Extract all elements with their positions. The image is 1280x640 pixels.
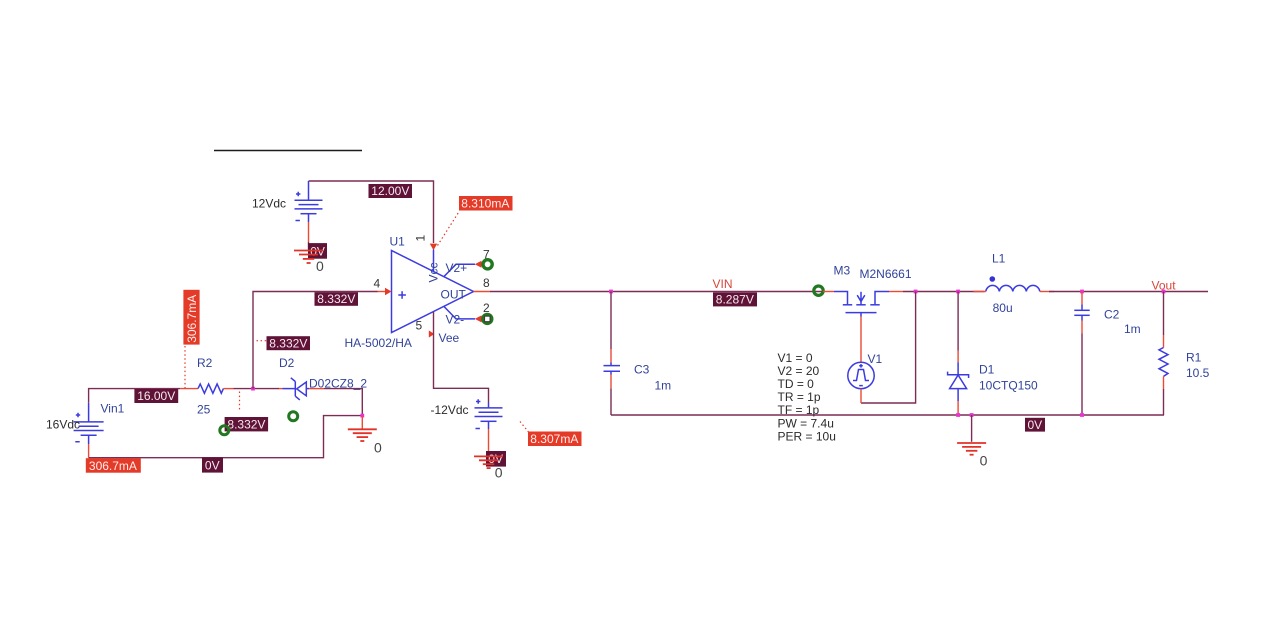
current label 306.7mA (rotated, on R2 branch): [183, 290, 199, 388]
pin 1 current arrow: [430, 244, 437, 251]
svg-text:0: 0: [495, 465, 503, 481]
voltage label 0V (12Vdc ground): [308, 243, 327, 259]
node junction at D2 ground: [360, 414, 364, 418]
svg-text:C3: C3: [634, 362, 650, 376]
svg-text:R1: R1: [1186, 350, 1202, 364]
svg-text:V1 = 0: V1 = 0: [778, 351, 813, 365]
voltage label 8.332V (above D2): [257, 336, 311, 350]
capacitor C2: [1074, 292, 1140, 416]
voltage label 0V (right rail): [1025, 418, 1045, 432]
pin 7 arrow: [475, 261, 482, 268]
svg-text:4: 4: [374, 277, 381, 291]
svg-text:25: 25: [197, 403, 211, 417]
svg-text:TF = 1p: TF = 1p: [778, 403, 820, 417]
svg-text:C2: C2: [1104, 307, 1120, 321]
node junction at D1 top: [956, 290, 960, 294]
current label 8.310mA: [438, 196, 513, 246]
svg-text:R2: R2: [197, 356, 213, 370]
svg-text:VIN: VIN: [713, 277, 733, 291]
wire Vin1 top to R2: [89, 389, 180, 403]
svg-text:-12Vdc: -12Vdc: [431, 403, 469, 417]
svg-text:8.287V: 8.287V: [716, 293, 754, 307]
voltage label 8.332V (lower, with probe ring): [220, 417, 268, 435]
wire D2 to ground corner: [324, 389, 362, 416]
voltage label 0V (-12Vdc ground): [486, 451, 506, 467]
pin 5 current arrow: [429, 330, 435, 337]
pulse source V1: [848, 352, 883, 403]
svg-text:L1: L1: [992, 252, 1006, 266]
zener diode D2: [279, 356, 324, 400]
svg-text:Vin1: Vin1: [101, 401, 125, 415]
wire R2 to D2: [234, 388, 280, 390]
op-amp U1 HA-5002/HA: [345, 235, 474, 351]
wire MOSFET gate to V1: [860, 317, 862, 363]
svg-text:8.332V: 8.332V: [227, 418, 265, 432]
voltage label 8.332V (pin 4 wire): [315, 292, 359, 306]
ground 0 (D2): [348, 429, 382, 455]
svg-text:V2+: V2+: [446, 261, 468, 275]
svg-text:OUT: OUT: [441, 288, 467, 302]
current label 8.307mA: [520, 422, 582, 447]
leader dots below junction: [239, 392, 241, 411]
svg-text:8.332V: 8.332V: [317, 292, 355, 306]
svg-text:0V: 0V: [1028, 418, 1043, 432]
svg-text:1m: 1m: [1124, 322, 1141, 336]
wire Vee pin down to -12V supply: [434, 312, 489, 403]
svg-text:V2 = 20: V2 = 20: [778, 364, 820, 378]
svg-text:TD = 0: TD = 0: [778, 377, 815, 391]
svg-text:D2: D2: [279, 356, 295, 370]
svg-text:M2N6661: M2N6661: [860, 267, 912, 281]
svg-text:10.5: 10.5: [1186, 366, 1210, 380]
triangle body: [392, 251, 474, 333]
svg-text:1: 1: [414, 235, 428, 242]
svg-text:306.7mA: 306.7mA: [89, 459, 137, 473]
probe marker on VIN wire (green ring): [814, 286, 823, 295]
svg-text:D1: D1: [979, 363, 995, 377]
wire bottom-right rail: [611, 414, 1164, 416]
battery V3 -12Vdc: [475, 399, 503, 429]
wire bottom-left rail: [89, 416, 363, 458]
title underline: [214, 150, 362, 152]
svg-text:306.7mA: 306.7mA: [185, 295, 199, 343]
svg-text:M3: M3: [834, 264, 851, 278]
wire op-amp V2+ pin 7: [444, 261, 475, 277]
svg-text:Vee: Vee: [439, 331, 460, 345]
node junction at MOSFET source: [914, 290, 918, 294]
probe marker pin 7 (green ring): [483, 260, 492, 269]
wire Vin1 negative to bottom rail: [88, 444, 90, 458]
svg-text:16.00V: 16.00V: [137, 389, 175, 403]
svg-text:U1: U1: [390, 235, 406, 249]
pin 2 arrow: [475, 315, 482, 322]
svg-text:TR = 1p: TR = 1p: [778, 390, 821, 404]
wire op-amp V2- pin 2: [444, 307, 475, 327]
probe marker (green ring below D2): [289, 412, 298, 421]
svg-text:0: 0: [316, 258, 324, 274]
wire junction up to op-amp pin 4: [253, 292, 378, 389]
resistor R1: [1159, 292, 1210, 416]
svg-text:16Vdc: 16Vdc: [46, 418, 80, 432]
svg-text:10CTQ150: 10CTQ150: [979, 379, 1038, 393]
wire -12Vdc to ground: [488, 429, 490, 456]
svg-text:8.310mA: 8.310mA: [461, 197, 509, 211]
svg-text:0V: 0V: [205, 458, 220, 472]
MOSFET M3: [823, 292, 903, 317]
ground 0 (-12Vdc): [474, 456, 503, 480]
node junction at Vout: [1162, 290, 1166, 294]
svg-text:PER = 10u: PER = 10u: [778, 429, 836, 443]
node junction at R2/D2/op-amp input: [251, 387, 255, 391]
svg-text:V1: V1: [868, 352, 883, 366]
wire junction to ground: [361, 416, 363, 429]
svg-text:0: 0: [980, 452, 988, 468]
ground 0 (output rail): [957, 443, 988, 468]
svg-text:80u: 80u: [993, 301, 1013, 315]
wire MOSFET source to L1 and down: [903, 291, 985, 293]
inductor L1: [974, 252, 1055, 315]
wire battery negative to ground: [308, 222, 310, 242]
capacitor C3: [604, 292, 672, 416]
svg-text:5: 5: [416, 319, 423, 333]
pin 4 input arrow: [377, 288, 392, 296]
schottky diode D1: [948, 292, 1038, 416]
wire op-amp output to MOSFET (VIN net): [490, 291, 822, 293]
noninverting input +: [398, 291, 406, 299]
V1 parameters: [778, 351, 836, 444]
battery V2 12Vdc: [295, 181, 323, 222]
node junction at D1 bottom: [956, 413, 960, 417]
wire to right ground: [971, 415, 973, 442]
svg-text:12Vdc: 12Vdc: [252, 197, 286, 211]
node junction at C2: [1080, 290, 1084, 294]
node junction at right ground: [970, 413, 974, 417]
svg-text:0: 0: [374, 440, 382, 456]
svg-text:12.00V: 12.00V: [371, 184, 409, 198]
svg-text:8.332V: 8.332V: [269, 336, 307, 350]
probe marker pin 2 (green ring with square): [483, 314, 492, 323]
pin Vcc stub: [433, 250, 435, 272]
wire V1 loop: [861, 292, 916, 404]
svg-text:1m: 1m: [655, 378, 672, 392]
svg-text:HA-5002/HA: HA-5002/HA: [345, 336, 412, 350]
resistor R2: [180, 356, 234, 417]
pin 8 output stub: [474, 291, 491, 293]
wire V+ rail top from 12Vdc battery to op-amp pin 1: [309, 181, 434, 243]
voltage label 0V (bottom-left rail): [202, 457, 223, 472]
svg-text:PW = 7.4u: PW = 7.4u: [778, 416, 834, 430]
node junction at C2 bottom: [1080, 413, 1084, 417]
voltage label 16.00V: [134, 389, 178, 403]
svg-text:8: 8: [483, 276, 490, 290]
svg-text:V2-: V2-: [446, 313, 465, 327]
ground 0 (12Vdc): [294, 251, 324, 275]
battery Vin1 16Vdc: [74, 403, 104, 444]
current label 306.7mA (bottom): [86, 458, 141, 473]
svg-text:8.307mA: 8.307mA: [530, 432, 578, 446]
voltage label 8.287V (VIN): [713, 292, 757, 306]
node junction at C3: [609, 290, 613, 294]
svg-text:Vcc: Vcc: [427, 262, 441, 282]
wire L1 to Vout: [1049, 291, 1208, 293]
voltage label 12.00V: [369, 184, 413, 198]
